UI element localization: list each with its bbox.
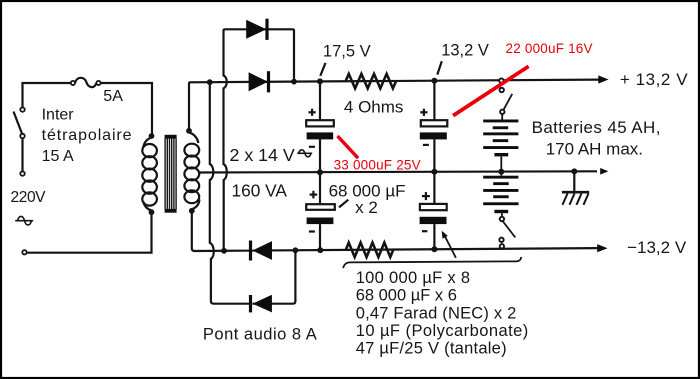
node B junction dot to upper branch riser bbox=[221, 248, 227, 254]
capacitor C3 bottom wire bbox=[319, 224, 321, 250]
svg-text:x 2: x 2 bbox=[355, 198, 378, 217]
transformer T1 secondary lead-in bottom bbox=[192, 200, 200, 210]
source upper terminal bbox=[20, 171, 24, 175]
diode D2 cathode bar bbox=[265, 19, 268, 40]
zero rail junction dot at ground bbox=[571, 168, 577, 174]
diode D3 cathode bar bbox=[249, 241, 252, 261]
zero volt rail from centre tap bbox=[199, 171, 598, 172]
transformer T1 secondary top junction bbox=[186, 128, 192, 134]
ground wire bbox=[573, 172, 575, 191]
wire top-left corner from switch to fuse bbox=[23, 83, 71, 107]
fuse F1 right terminal bbox=[96, 81, 100, 85]
battery switch bottom blade bbox=[503, 222, 515, 238]
diode D2 triangle bbox=[246, 20, 266, 39]
fuse F1 body bbox=[75, 78, 96, 87]
switch S1 top terminal bbox=[20, 107, 24, 111]
ground hatches bbox=[563, 194, 589, 205]
svg-text:5A: 5A bbox=[103, 88, 123, 105]
red leader line 33 000uF bbox=[338, 136, 359, 158]
lower diode branch wire bbox=[253, 252, 296, 304]
transformer T1 primary top junction bbox=[149, 133, 155, 139]
capacitor C2 minus sign bbox=[423, 144, 429, 146]
callout leader line bbox=[445, 236, 456, 258]
capacitor C2 top wire bbox=[433, 81, 435, 121]
node A junction dot bbox=[207, 79, 213, 85]
svg-text:160 VA: 160 VA bbox=[232, 181, 288, 201]
callout brace bbox=[343, 257, 521, 268]
battery switch bottom pivot circle bbox=[500, 217, 504, 221]
svg-text:Pont audio 8 A: Pont audio 8 A bbox=[203, 325, 317, 343]
capacitor C3 top wire bbox=[319, 172, 321, 204]
battery switch bottom circle b bbox=[500, 244, 504, 248]
transformer T1 core top cap bbox=[165, 135, 177, 139]
svg-text:33 000uF 25V: 33 000uF 25V bbox=[334, 157, 421, 172]
transformer T1 core laminations bbox=[165, 138, 176, 209]
resistor R2 bbox=[346, 243, 393, 258]
plus rail arrowhead bbox=[598, 75, 608, 83]
capacitor C3 plus sign bbox=[310, 191, 318, 199]
transformer T1 secondary winding bbox=[184, 144, 199, 204]
wire zero rail to battery B2 bbox=[500, 172, 502, 176]
leader 13,2 V bbox=[437, 61, 442, 74]
leader 17,5 V bbox=[320, 63, 325, 76]
capacitor C4 positive plate bbox=[420, 204, 447, 210]
svg-text:Inter: Inter bbox=[42, 107, 75, 124]
transformer T1 primary lead-in top bbox=[143, 138, 151, 148]
capacitor C1 bottom wire bbox=[319, 139, 321, 172]
junction dot minus rail at C4 bbox=[431, 246, 437, 252]
svg-text:170 AH max.: 170 AH max. bbox=[546, 140, 643, 159]
battery B1 plates bbox=[483, 120, 518, 157]
wire switch to source terminal bbox=[21, 138, 23, 171]
svg-text:4 Ohms: 4 Ohms bbox=[344, 97, 404, 116]
capacitor C4 negative plate bbox=[420, 217, 447, 224]
capacitor C1 negative plate bbox=[307, 132, 334, 139]
zero rail arrowhead bbox=[600, 168, 608, 175]
capacitor C2 negative plate bbox=[420, 132, 447, 139]
transformer T1 primary lead-in bottom bbox=[143, 202, 151, 211]
capacitor C2 positive plate bbox=[421, 120, 448, 126]
battery B2 plates bbox=[483, 176, 518, 214]
transformer T1 secondary lead-in top bbox=[189, 132, 198, 143]
minus rail arrowhead bbox=[597, 244, 607, 252]
svg-text:22 000uF 16V: 22 000uF 16V bbox=[506, 41, 593, 56]
junction dot plus rail at C2 bbox=[431, 78, 437, 84]
wire battery B2 to pivot bbox=[501, 213, 503, 217]
transformer T1 primary winding bbox=[142, 144, 157, 206]
svg-text:−13,2 V: −13,2 V bbox=[627, 238, 687, 257]
capacitor C4 bottom wire bbox=[433, 224, 435, 249]
capacitor C3 minus sign bbox=[309, 230, 315, 232]
transformer T1 core bottom cap bbox=[165, 209, 177, 213]
resistor R1 4 Ohms bbox=[346, 74, 396, 89]
svg-text:100 000 µF x 8: 100 000 µF x 8 bbox=[356, 269, 471, 287]
diode D4 cathode bar bbox=[249, 295, 252, 312]
diode D1 cathode bar bbox=[267, 71, 270, 92]
svg-text:tétrapolaire: tétrapolaire bbox=[42, 127, 133, 144]
capacitor C3 positive plate bbox=[306, 204, 335, 210]
capacitor C1 minus sign bbox=[309, 146, 315, 148]
capacitor C1 plus sign bbox=[309, 109, 316, 116]
capacitor C4 minus sign bbox=[422, 230, 428, 232]
leader 68 000 uF bbox=[339, 200, 348, 208]
diode D3 triangle bbox=[252, 241, 272, 260]
zero rail junction dot at C2 bbox=[431, 169, 437, 175]
svg-text:68 000 µF x 6: 68 000 µF x 6 bbox=[356, 287, 457, 305]
wire source to primary bottom bbox=[27, 214, 152, 253]
capacitor C2 bottom wire bbox=[433, 139, 435, 172]
upper diode branch top run bbox=[224, 29, 295, 81]
AC sine symbol secondary bbox=[297, 150, 312, 157]
wire battery B1 to zero rail bbox=[500, 156, 502, 172]
svg-text:220V: 220V bbox=[11, 189, 47, 206]
wire fuse to primary top bbox=[101, 83, 152, 134]
svg-text:15 A: 15 A bbox=[42, 148, 74, 165]
wire secondary top to plus rail (node A) bbox=[189, 80, 599, 132]
diode D4 triangle bbox=[253, 295, 272, 313]
zero rail junction dot at C1 bbox=[317, 169, 323, 175]
capacitor C1 positive plate bbox=[306, 120, 334, 126]
transformer T1 primary bottom junction bbox=[149, 209, 155, 215]
AC sine symbol 220V bbox=[15, 216, 33, 225]
wire node A down to negative bridge (with hops) bbox=[210, 83, 249, 304]
svg-text:47 µF/25 V (tantale): 47 µF/25 V (tantale) bbox=[356, 339, 507, 357]
battery switch top pivot circle bbox=[500, 110, 504, 114]
diode D1 triangle bbox=[249, 72, 268, 91]
capacitor C3 negative plate bbox=[307, 218, 334, 225]
svg-text:13,2 V: 13,2 V bbox=[441, 42, 489, 60]
fuse F1 left terminal bbox=[71, 81, 75, 85]
battery switch bottom circle a bbox=[499, 238, 503, 242]
battery switch top circle a bbox=[499, 78, 503, 82]
junction dot minus rail at C3 bbox=[317, 247, 323, 253]
svg-text:17,5 V: 17,5 V bbox=[323, 43, 371, 61]
battery switch top circle b bbox=[500, 88, 504, 92]
switch S1 middle terminal bbox=[20, 134, 24, 138]
switch S1 blade bbox=[14, 112, 23, 134]
callout leader arrowhead bbox=[442, 231, 448, 239]
junction dot upper branch to plus rail bbox=[291, 79, 297, 85]
upper diode branch left wire with hops (node B riser) bbox=[224, 30, 227, 251]
junction dot lower branch to minus rail bbox=[293, 247, 299, 253]
wire secondary bottom to minus rail (node B) bbox=[192, 212, 598, 251]
zero rail junction dot at batteries bbox=[498, 169, 504, 175]
transformer T1 secondary bottom junction bbox=[189, 208, 195, 214]
capacitor C4 top wire bbox=[433, 172, 435, 204]
svg-text:0,47 Farad (NEC) x 2: 0,47 Farad (NEC) x 2 bbox=[356, 305, 517, 323]
svg-text:2 x 14 V: 2 x 14 V bbox=[230, 145, 295, 165]
capacitor C4 plus sign bbox=[422, 192, 430, 200]
capacitor C2 plus sign bbox=[420, 109, 427, 116]
svg-text:10 µF (Polycarbonate): 10 µF (Polycarbonate) bbox=[356, 322, 529, 340]
battery switch top blade bbox=[503, 94, 512, 110]
ground bar bbox=[562, 191, 589, 194]
svg-text:Batteries 45 AH,: Batteries 45 AH, bbox=[532, 118, 661, 137]
junction dot plus rail at C1 bbox=[317, 78, 323, 84]
svg-text:+ 13,2 V: + 13,2 V bbox=[620, 70, 688, 89]
source lower terminal bbox=[22, 250, 26, 254]
capacitor C1 top wire bbox=[319, 81, 321, 120]
red leader line 22 000uF bbox=[453, 66, 528, 115]
wire pivot to battery B1 bbox=[501, 114, 503, 119]
